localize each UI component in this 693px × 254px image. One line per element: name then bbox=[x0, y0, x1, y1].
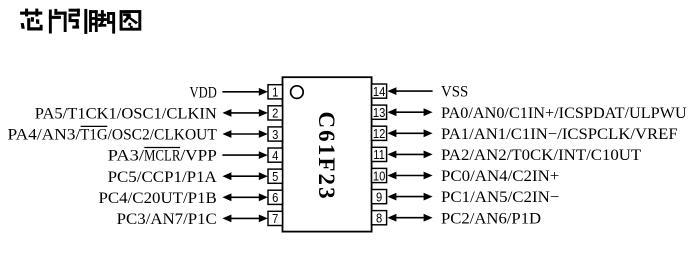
pin 3 box bbox=[268, 127, 283, 141]
svg-text:PC4/C20UT/P1B: PC4/C20UT/P1B bbox=[99, 190, 217, 207]
svg-text:PC2/AN6/P1D: PC2/AN6/P1D bbox=[441, 210, 541, 227]
svg-text:3: 3 bbox=[272, 127, 278, 142]
svg-text:1: 1 bbox=[272, 85, 278, 100]
wire pin 10 (PC0/AN4/C2IN+) bbox=[387, 172, 432, 180]
svg-text:12: 12 bbox=[373, 126, 386, 141]
wire pin 7 (PC3/AN7/P1C) bbox=[222, 215, 267, 223]
svg-text:PA4/AN3/: PA4/AN3/ bbox=[8, 127, 81, 144]
svg-text:7: 7 bbox=[272, 211, 278, 226]
svg-text:PC0/AN4/C2IN+: PC0/AN4/C2IN+ bbox=[441, 168, 559, 185]
pin 7 label PC3/AN7/P1C bbox=[117, 211, 217, 228]
pin 2 label PA5/T1CK1/OSC1/CLKIN bbox=[35, 106, 217, 123]
svg-text:PA3/: PA3/ bbox=[108, 148, 145, 165]
svg-text:8: 8 bbox=[376, 211, 382, 226]
svg-text:PC1/AN5/C2IN−: PC1/AN5/C2IN− bbox=[441, 189, 559, 206]
svg-text:MCLR: MCLR bbox=[144, 148, 181, 165]
wire pin 11 (PA2/AN2/T0CK/INT/C10UT) bbox=[387, 151, 432, 159]
svg-text:PC3/AN7/P1C: PC3/AN7/P1C bbox=[117, 211, 217, 228]
wire pin 5 (PC5/CCP1/P1A) bbox=[222, 172, 267, 180]
svg-text:9: 9 bbox=[376, 190, 382, 205]
pin 2 box bbox=[268, 106, 283, 120]
wire pin 12 (PA1/AN1/C1IN−/ICSPCLK/VREF) bbox=[387, 129, 432, 137]
svg-text:4: 4 bbox=[272, 148, 278, 163]
svg-text:14: 14 bbox=[373, 84, 386, 99]
wire pin 14 (VSS) bbox=[387, 87, 432, 95]
svg-text:13: 13 bbox=[373, 105, 386, 120]
svg-text:6: 6 bbox=[272, 190, 278, 205]
wire pin 13 (PA0/AN0/C1IN+/ICSPDAT/ULPWU) bbox=[387, 108, 432, 116]
svg-text:/OSC2/CLKOUT: /OSC2/CLKOUT bbox=[108, 127, 217, 144]
svg-text:11: 11 bbox=[373, 147, 385, 162]
svg-text:PA5/T1CK1/OSC1/CLKIN: PA5/T1CK1/OSC1/CLKIN bbox=[35, 106, 217, 123]
wire pin 3 (PA4/AN3/T1G/OSC2/CLKOUT) bbox=[222, 130, 267, 138]
wire pin 8 (PC2/AN6/P1D) bbox=[387, 214, 432, 222]
pin 6 box bbox=[268, 190, 283, 204]
title text 芯片引脚图 (hand-drawn glyph strokes) bbox=[20, 9, 141, 34]
svg-text:PA0/AN0/C1IN+/ICSPDAT/ULPWU: PA0/AN0/C1IN+/ICSPDAT/ULPWU bbox=[441, 105, 687, 122]
wire pin 9 (PC1/AN5/C2IN−) bbox=[387, 193, 432, 201]
pin 11 box bbox=[372, 147, 387, 161]
pin 10 box bbox=[372, 168, 387, 182]
pin 14 box bbox=[372, 84, 387, 98]
pin 13 box bbox=[372, 105, 387, 119]
svg-text:10: 10 bbox=[373, 169, 386, 184]
pin 5 label PC5/CCP1/P1A bbox=[108, 169, 218, 186]
svg-text:T1G: T1G bbox=[80, 127, 108, 144]
wire pin 6 (PC4/C20UT/P1B) bbox=[222, 193, 267, 201]
pin-1 indicator circle bbox=[291, 86, 304, 99]
pin 4 label PA3/MCLR/VPP bbox=[108, 148, 217, 165]
svg-text:C61F23: C61F23 bbox=[314, 111, 339, 200]
pin 1 label VDD bbox=[190, 84, 217, 101]
svg-text:VSS: VSS bbox=[441, 84, 468, 101]
svg-text:5: 5 bbox=[272, 169, 278, 184]
wire pin 1 (VDD) bbox=[222, 88, 267, 96]
pin 1 box bbox=[268, 85, 283, 99]
wire pin 2 (PA5/T1CK1/OSC1/CLKIN) bbox=[222, 109, 267, 117]
pin 6 label PC4/C20UT/P1B bbox=[99, 190, 217, 207]
svg-text:PA2/AN2/T0CK/INT/C10UT: PA2/AN2/T0CK/INT/C10UT bbox=[441, 147, 641, 164]
pin 5 box bbox=[268, 169, 283, 183]
pin 12 box bbox=[372, 126, 387, 140]
svg-text:VDD: VDD bbox=[190, 84, 217, 101]
svg-text:PA1/AN1/C1IN−/ICSPCLK/VREF: PA1/AN1/C1IN−/ICSPCLK/VREF bbox=[441, 126, 678, 143]
pin 9 box bbox=[372, 190, 387, 204]
chip body U1 C61F23 bbox=[283, 77, 372, 231]
pin 7 box bbox=[268, 211, 283, 225]
svg-text:PC5/CCP1/P1A: PC5/CCP1/P1A bbox=[108, 169, 218, 186]
pin 4 box bbox=[268, 148, 283, 162]
wire pin 4 (PA3/MCLR/VPP) bbox=[222, 151, 267, 159]
svg-text:/VPP: /VPP bbox=[180, 148, 217, 165]
pin 8 box bbox=[372, 211, 387, 225]
pin 3 label PA4/AN3/T1G/OSC2/CLKOUT bbox=[8, 126, 218, 143]
svg-text:2: 2 bbox=[272, 106, 278, 121]
